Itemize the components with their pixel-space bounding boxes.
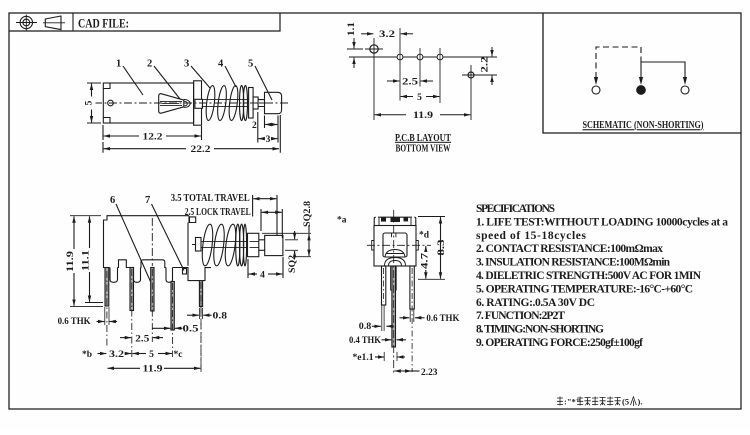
spring tight f6 bbox=[243, 224, 246, 266]
leader 7 bbox=[152, 204, 185, 271]
plunger cone bbox=[159, 94, 191, 114]
dim 2 button bbox=[265, 116, 278, 129]
svg-text:2.23: 2.23 bbox=[421, 368, 438, 378]
button cap bbox=[265, 92, 282, 113]
dim 22.2 bbox=[103, 115, 280, 153]
dim 2.23 bbox=[394, 370, 419, 372]
svg-text:2.5 LOCK TRAVEL: 2.5 LOCK TRAVEL bbox=[185, 207, 251, 218]
label 4 bbox=[225, 66, 236, 87]
label 2 bbox=[154, 66, 180, 99]
dim 2.5 lock travel bbox=[261, 209, 282, 238]
dim 4 bbox=[248, 257, 283, 278]
dim 0.8 pin5 bbox=[187, 314, 212, 316]
label 1 bbox=[123, 66, 143, 95]
dim 0.5 bbox=[153, 327, 183, 329]
svg-text:3.2: 3.2 bbox=[379, 30, 395, 40]
dim 1.1 bbox=[347, 38, 363, 68]
svg-text:1.1: 1.1 bbox=[347, 22, 357, 36]
plunger neck bbox=[259, 240, 265, 251]
pcb texts bbox=[347, 22, 491, 121]
pin 1 bbox=[105, 268, 109, 307]
svg-text:4.7: 4.7 bbox=[420, 253, 430, 269]
spring end arcs bbox=[385, 258, 406, 266]
dim 3 bbox=[258, 112, 278, 143]
dim 0.4 THK bbox=[382, 339, 407, 341]
svg-text:2. CONTACT RESISTANCE:100mΩmax: 2. CONTACT RESISTANCE:100mΩmax bbox=[476, 243, 663, 255]
hole circle bbox=[108, 100, 114, 106]
svg-text:SCHEMATIC (NON-SHORTING): SCHEMATIC (NON-SHORTING) bbox=[583, 119, 704, 131]
svg-text:3. INSULATION RESISTANCE:100MΩ: 3. INSULATION RESISTANCE:100MΩmin bbox=[476, 257, 671, 269]
pin 3 bbox=[151, 268, 154, 312]
svg-text:SPECIFICATIONS: SPECIFICATIONS bbox=[476, 203, 555, 215]
dim 2.5 pins bbox=[120, 337, 163, 339]
svg-text:5: 5 bbox=[417, 93, 422, 103]
svg-text:0.8: 0.8 bbox=[213, 311, 228, 321]
dim e1.1 bbox=[375, 356, 405, 358]
schematic box bbox=[543, 13, 741, 133]
centerline bbox=[94, 102, 289, 104]
cap inner steps bbox=[379, 218, 411, 226]
dim SQ2 bbox=[285, 231, 298, 259]
svg-text:5: 5 bbox=[85, 100, 95, 105]
svg-text:).: ). bbox=[638, 396, 643, 406]
svg-text:12.2: 12.2 bbox=[143, 132, 163, 142]
spring tight coil 4 bbox=[240, 85, 244, 120]
hole D small bbox=[437, 48, 443, 103]
projection symbol circle bbox=[16, 15, 37, 31]
hole B small bbox=[397, 28, 403, 101]
boss foot 3 bbox=[166, 268, 173, 283]
svg-text:BOTTOM VIEW: BOTTOM VIEW bbox=[396, 143, 451, 154]
svg-text:5. OPERATING TEMPERATURE:-16°C: 5. OPERATING TEMPERATURE:-16°C-+60°C bbox=[476, 283, 693, 295]
dim 8.3 bbox=[418, 217, 445, 280]
dim 5 bbox=[401, 96, 440, 98]
svg-text:1: 1 bbox=[116, 59, 121, 70]
dim SQ2.8 bbox=[262, 225, 311, 257]
side ear right bbox=[416, 241, 418, 251]
middle view texts bbox=[337, 216, 460, 379]
svg-text:2.5: 2.5 bbox=[135, 334, 149, 344]
svg-text:speed of 15-18cycles: speed of 15-18cycles bbox=[476, 230, 587, 242]
svg-text:SQ2.8: SQ2.8 bbox=[303, 201, 313, 227]
plunger dome bbox=[385, 250, 405, 258]
bottom notch 2 wide bbox=[141, 260, 167, 268]
spring coil f3 bbox=[223, 224, 237, 267]
svg-text:3.2: 3.2 bbox=[109, 350, 124, 360]
svg-text:11.9: 11.9 bbox=[143, 365, 163, 375]
svg-text:2.5: 2.5 bbox=[402, 77, 418, 87]
dim 12.2 bbox=[103, 125, 202, 140]
svg-text:11.9: 11.9 bbox=[66, 251, 76, 272]
spring coil 2 bbox=[216, 85, 228, 121]
svg-text:7: 7 bbox=[145, 195, 150, 206]
dim 3.2 / 5 row bbox=[98, 353, 173, 355]
cap dark slot 2 bbox=[391, 217, 401, 222]
arrow left bbox=[594, 77, 598, 85]
svg-text:2.2: 2.2 bbox=[481, 56, 491, 72]
svg-text:0.5: 0.5 bbox=[183, 325, 199, 335]
note (chinese) bbox=[557, 397, 636, 407]
main body rect bbox=[374, 226, 416, 267]
dim 0.6 THK mid bbox=[400, 317, 425, 319]
arrow right bbox=[683, 77, 687, 85]
svg-text:*d: *d bbox=[419, 231, 430, 241]
pin edge extension ticks bbox=[105, 307, 203, 325]
svg-text:4. DIELETRIC STRENGTH:500V AC: 4. DIELETRIC STRENGTH:500V AC FOR 1MIN bbox=[476, 270, 702, 282]
front view texts bbox=[110, 195, 150, 206]
spring coil f1 bbox=[200, 224, 214, 267]
svg-text:4: 4 bbox=[260, 270, 265, 280]
dim 11.9 bottom bbox=[108, 367, 201, 369]
svg-text:6. RATING:.0.5A 30V DC: 6. RATING:.0.5A 30V DC bbox=[476, 297, 595, 309]
solid common path bbox=[641, 60, 685, 78]
hole A big top-left bbox=[365, 38, 383, 120]
pin 2 bbox=[130, 268, 134, 311]
lock bracket bbox=[189, 216, 196, 223]
leg left bbox=[382, 266, 386, 305]
svg-text:6: 6 bbox=[110, 195, 115, 206]
svg-text:22.2: 22.2 bbox=[191, 145, 211, 155]
main centerline bbox=[349, 56, 491, 58]
bottom notch 1 bbox=[118, 260, 134, 268]
boss foot 2 bbox=[134, 268, 141, 283]
dim 4.7 bbox=[425, 246, 427, 279]
pin 5 bbox=[199, 281, 202, 307]
terminal left open bbox=[592, 86, 600, 94]
body outline bbox=[104, 216, 190, 268]
hole E bottom-right bbox=[462, 65, 487, 120]
rod lines bbox=[192, 241, 248, 247]
leg centerlines bbox=[201, 268, 412, 372]
cap dark slot 3 bbox=[404, 217, 409, 221]
dim 2.5 bbox=[387, 80, 433, 82]
svg-text:3.5 TOTAL TRAVEL: 3.5 TOTAL TRAVEL bbox=[171, 193, 250, 204]
inner square window bbox=[383, 233, 407, 257]
center vertical dashline bbox=[393, 210, 395, 375]
boss foot 1 bbox=[110, 268, 118, 283]
svg-text:0.8: 0.8 bbox=[359, 322, 372, 332]
end plate bbox=[194, 81, 202, 125]
spring coil 3 bbox=[228, 85, 240, 121]
view centerline vertical bbox=[151, 218, 153, 266]
middle white leg bbox=[391, 266, 397, 290]
svg-text:*a: *a bbox=[337, 216, 347, 226]
label 5 bbox=[255, 66, 272, 100]
svg-text:SQ2: SQ2 bbox=[288, 255, 298, 273]
middle gray pin bbox=[392, 266, 396, 347]
dim 0.6 THK bbox=[97, 321, 118, 323]
plunger square bbox=[248, 233, 259, 256]
dim 3.5 total travel bbox=[253, 195, 277, 235]
svg-text:P.C.B LAYOUT: P.C.B LAYOUT bbox=[395, 133, 451, 144]
lock pin square bbox=[183, 269, 187, 275]
svg-text:11.1: 11.1 bbox=[82, 250, 92, 271]
inner chord line bbox=[387, 253, 404, 255]
svg-text:2: 2 bbox=[147, 59, 152, 70]
washer bbox=[249, 88, 254, 119]
svg-text:CAD FILE:: CAD FILE: bbox=[78, 16, 129, 31]
svg-text:8. TIMING:NON-SHORTING: 8. TIMING:NON-SHORTING bbox=[476, 324, 604, 336]
leg right bbox=[410, 266, 414, 309]
svg-text:0.4 THK: 0.4 THK bbox=[349, 336, 382, 346]
spring tight coil 5 bbox=[243, 85, 247, 120]
rod guide notch bbox=[195, 99, 203, 108]
leg edge extension lines bbox=[382, 305, 414, 361]
svg-text:8.3: 8.3 bbox=[437, 239, 447, 255]
spring coil f2 bbox=[212, 224, 226, 267]
leader 6 bbox=[116, 204, 151, 282]
top view texts bbox=[116, 59, 253, 70]
svg-text:9. OPERATING FORCE:250gf±100gf: 9. OPERATING FORCE:250gf±100gf bbox=[476, 337, 643, 349]
dim 0.8 mid bbox=[372, 325, 392, 327]
pin centerline extensions bbox=[107, 269, 201, 372]
svg-text:5: 5 bbox=[248, 59, 253, 70]
svg-text:3: 3 bbox=[266, 135, 271, 145]
svg-text:7. FUNCTION:2P2T: 7. FUNCTION:2P2T bbox=[476, 310, 565, 322]
pin 4 bbox=[171, 282, 174, 331]
terminal middle filled bbox=[637, 86, 646, 95]
hole C small bbox=[417, 48, 423, 87]
cap dark slot 1 bbox=[381, 217, 386, 221]
dim 2.2 bbox=[482, 47, 497, 85]
body corner notch bottom-left bbox=[103, 118, 110, 124]
center horizontal dashline bbox=[367, 244, 431, 246]
svg-text:(5: (5 bbox=[622, 396, 629, 406]
switch body outline bbox=[103, 83, 193, 123]
svg-text:*c: *c bbox=[174, 350, 183, 360]
arrow middle bbox=[639, 77, 643, 85]
shaft neck bbox=[258, 100, 264, 107]
cap top bbox=[374, 217, 416, 225]
svg-text:2: 2 bbox=[252, 121, 257, 131]
svg-text:0.6 THK: 0.6 THK bbox=[426, 314, 460, 324]
terminal right open bbox=[681, 86, 689, 94]
body right edge bbox=[187, 223, 189, 266]
dim 11.9 bbox=[375, 114, 471, 116]
side ear left bbox=[372, 241, 374, 251]
svg-text::"*": :"*" bbox=[564, 396, 581, 406]
svg-text:*e1.1: *e1.1 bbox=[353, 353, 374, 363]
svg-text:3: 3 bbox=[184, 59, 189, 70]
svg-text:*b: *b bbox=[82, 350, 92, 360]
spring coil 1 bbox=[205, 85, 217, 121]
title block bbox=[9, 13, 280, 31]
svg-text:5: 5 bbox=[149, 350, 154, 360]
svg-text:4: 4 bbox=[218, 59, 224, 70]
svg-text:0.6 THK: 0.6 THK bbox=[58, 317, 92, 327]
projection symbol cone bbox=[43, 16, 65, 30]
spring tight f5 bbox=[240, 224, 244, 266]
spring tight f4 bbox=[236, 224, 240, 266]
body corner notch top-left bbox=[103, 83, 110, 89]
rod end plate bbox=[196, 238, 202, 252]
dim 11.1 left bbox=[85, 216, 103, 302]
svg-text:11.9: 11.9 bbox=[413, 111, 433, 121]
bottom edge to right step bbox=[173, 268, 212, 281]
dim 3.2 bbox=[361, 33, 413, 35]
label 3 bbox=[191, 66, 210, 88]
svg-text:1. LIFE TEST:WITHOUT LOADING 1: 1. LIFE TEST:WITHOUT LOADING 10000cycles… bbox=[476, 216, 728, 228]
dim 5 left bbox=[87, 83, 101, 123]
dim 11.9 left bbox=[70, 216, 103, 307]
dashed throw path bbox=[596, 47, 641, 78]
rod through spring bbox=[202, 100, 249, 107]
button cap front bbox=[265, 235, 283, 255]
shaft step bbox=[253, 97, 258, 109]
